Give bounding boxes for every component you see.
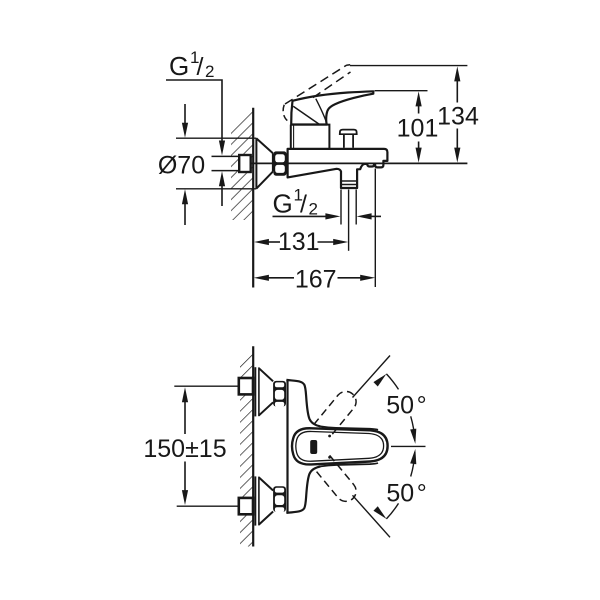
lever (plan, solid) outer: [292, 428, 388, 464]
svg-text:150±15: 150±15: [143, 435, 226, 463]
handle lever (closed position): [291, 91, 373, 124]
angle line lower: [353, 495, 391, 537]
svg-text:/: /: [300, 191, 307, 219]
dimension 134: [437, 66, 479, 162]
angle arc upper: [386, 374, 398, 390]
svg-text:°: °: [417, 480, 427, 508]
extension line top (134): [350, 65, 467, 67]
leader line G1/2 top: [166, 80, 222, 141]
lever inner edge: [296, 431, 384, 461]
cap outline upper: [321, 426, 379, 429]
faucet body (side view): [288, 149, 388, 188]
svg-text:50: 50: [386, 480, 414, 508]
handle sculpt curve: [316, 99, 327, 123]
escutcheon top (plan): [255, 367, 286, 416]
svg-text:167: 167: [295, 265, 337, 293]
G1/2 arrow upper (points down to pipe top): [219, 141, 225, 156]
diverter knob: [340, 130, 357, 134]
centerline axis: [251, 162, 468, 164]
wall hatch (bottom view): [240, 345, 253, 547]
handle facet line: [293, 106, 319, 124]
dimension 167: [254, 265, 375, 293]
angle arc lower: [386, 503, 398, 519]
svg-text:°: °: [417, 392, 427, 420]
svg-text:Ø70: Ø70: [158, 151, 205, 179]
G1/2 width dimension line: [273, 215, 327, 217]
zero reference line: [391, 445, 426, 447]
svg-text:G: G: [169, 51, 189, 81]
svg-text:134: 134: [437, 102, 479, 130]
escutcheon cone: [256, 138, 273, 188]
angle line upper: [353, 356, 391, 398]
extension line nipple center: [348, 190, 350, 251]
pipe stub behind wall: [212, 155, 240, 157]
cap outline lower: [321, 463, 379, 466]
escutcheon flange (top view): [255, 138, 257, 189]
mounting square top: [239, 378, 253, 394]
extension line lever tip (101): [375, 90, 428, 92]
svg-text:G: G: [273, 189, 293, 219]
lever open +50deg (dashed): [314, 387, 360, 437]
label G 1/2 (top): [169, 48, 214, 81]
svg-text:101: 101: [397, 115, 439, 143]
extension lines nipple: [340, 190, 342, 225]
wall line (bottom view): [252, 346, 254, 546]
dimension 150±15: [143, 387, 226, 505]
handle open position (dashed): [285, 65, 347, 104]
dimension 131: [254, 228, 348, 256]
lever open -50deg (dashed): [314, 455, 360, 505]
wall line (top view): [252, 108, 254, 288]
svg-text:2: 2: [205, 62, 214, 81]
lever logo mark: [310, 440, 317, 454]
G1/2 arrow lower (points up to pipe bottom): [219, 171, 225, 186]
union nut (top view): [274, 151, 287, 175]
extension line aerator (167 right): [374, 169, 376, 288]
dimension Ø70 extension lines: [176, 137, 256, 139]
mounting square bottom: [239, 498, 253, 514]
dimension Ø70 arrow bottom: [182, 189, 188, 204]
svg-text:/: /: [197, 53, 204, 81]
dimension 101: [397, 91, 439, 162]
body neck outline bottom: [286, 466, 320, 513]
body neck outline top: [286, 380, 320, 427]
pipe union square: [239, 155, 251, 172]
dimension Ø70 arrow top: [184, 104, 186, 124]
label G 1/2 (middle): [273, 186, 318, 219]
wall hatch (top view): [231, 103, 253, 220]
svg-text:50: 50: [386, 392, 414, 420]
body back plate edge (plan): [286, 380, 288, 514]
cartridge cap under handle: [291, 125, 330, 149]
spout nipple thread band: [341, 180, 357, 182]
escutcheon bottom (plan): [255, 476, 286, 525]
lever dots: [328, 435, 331, 438]
svg-text:131: 131: [278, 228, 320, 256]
dimension 150±15 extension lines: [174, 385, 238, 387]
